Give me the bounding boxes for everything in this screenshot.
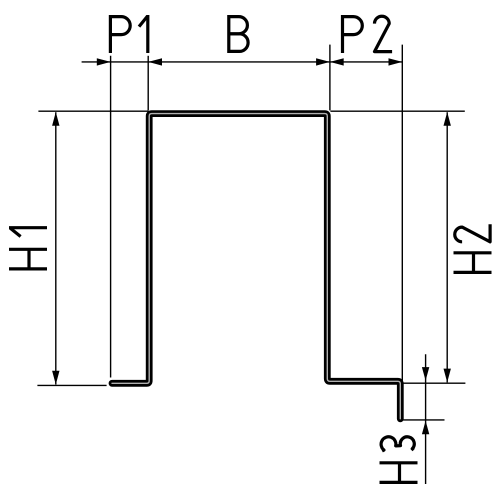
label H1 (rotated) — [9, 228, 47, 269]
H2 top extension — [330, 110, 464, 112]
H3 bottom arrow — [422, 421, 429, 435]
H2 dimension line — [446, 112, 448, 382]
label H2 (rotated) — [454, 224, 492, 272]
H1 dimension line — [55, 112, 57, 384]
thin lines — [37, 45, 465, 484]
H3 top arrow — [422, 367, 429, 381]
B left arrow — [148, 58, 162, 65]
H2 bottom extension — [403, 382, 466, 384]
H1 bottom extension — [37, 384, 106, 386]
label B — [229, 15, 248, 53]
extension line E4 (x=402.3) — [401, 45, 403, 421]
H2 top arrow — [444, 112, 451, 126]
extension line E1 (x=110.6) — [110, 56, 112, 378]
P2 right arrow — [389, 58, 403, 65]
extension line E3 (x=329.9) — [329, 45, 331, 111]
label H3 (rotated) — [380, 437, 418, 483]
H1 top extension — [38, 110, 148, 112]
label P1 — [110, 15, 147, 53]
label P2 — [343, 15, 393, 53]
P2 left arrow — [330, 58, 344, 65]
profile inner core line — [112, 114, 400, 419]
H3 bottom extension — [402, 419, 445, 421]
H1 top arrow — [52, 112, 59, 126]
B right arrow — [316, 58, 330, 65]
profile outline (sheet cross-section, double contour) — [112, 114, 400, 419]
H3 dim line — [425, 354, 427, 484]
H2 bottom arrow — [444, 369, 451, 383]
H1 bottom arrow — [52, 371, 59, 385]
arrowheads — [52, 58, 451, 434]
top dimension line P1/B/P2 — [82, 61, 403, 63]
P1 left arrow — [97, 58, 111, 65]
extension line E2 (x=148.2) — [147, 56, 149, 111]
